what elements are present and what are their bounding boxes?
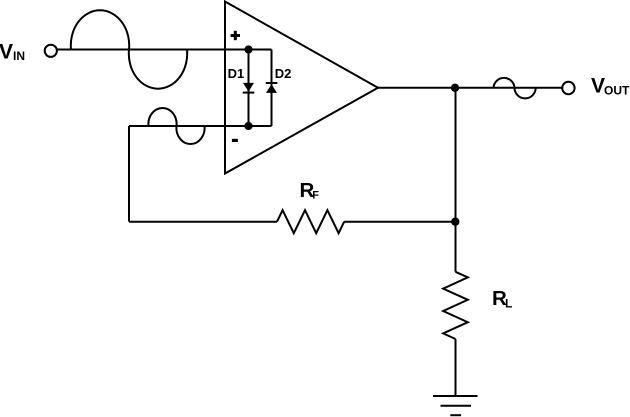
wire diode branch top [249, 49, 272, 51]
svg-text:D1: D1 [228, 66, 245, 81]
node feedback junction [451, 218, 459, 226]
node inverting input junction [244, 122, 252, 130]
wire feedback bottom horizontal [129, 221, 277, 223]
svg-text:F: F [312, 190, 319, 202]
terminal VOUT [562, 82, 574, 94]
feedback sine wave [148, 108, 204, 144]
svg-text:IN: IN [13, 49, 25, 63]
diode D1 [243, 50, 255, 127]
input sine wave [71, 10, 187, 88]
wire RL to ground [455, 339, 457, 396]
label VIN [0, 41, 25, 64]
resistor RL [443, 272, 468, 339]
wire RF to output node [344, 221, 455, 223]
ground [433, 396, 478, 415]
wire inverting input [129, 125, 249, 127]
output sine wave [494, 78, 536, 98]
op-amp minus input marker [232, 139, 238, 142]
svg-text:V: V [591, 75, 605, 98]
terminal VIN [45, 45, 57, 57]
resistor RF [277, 210, 344, 233]
svg-text:D2: D2 [275, 66, 292, 81]
label VOUT [591, 75, 630, 98]
node noninverting input junction [244, 45, 252, 53]
node output junction [451, 84, 459, 92]
wire VIN to noninverting input [58, 49, 249, 51]
label RL [492, 287, 512, 311]
diode D2 [266, 50, 278, 127]
wire diode branch bottom [249, 125, 272, 127]
wire output node down to RL [455, 88, 457, 272]
op-amp plus input marker [231, 31, 240, 40]
op-amp U1 [225, 2, 378, 174]
svg-text:V: V [0, 41, 13, 64]
label RF [300, 179, 320, 202]
svg-text:OUT: OUT [604, 83, 630, 97]
svg-text:L: L [505, 297, 512, 311]
wire feedback left vertical [128, 126, 130, 222]
wire op-amp output [378, 87, 562, 89]
